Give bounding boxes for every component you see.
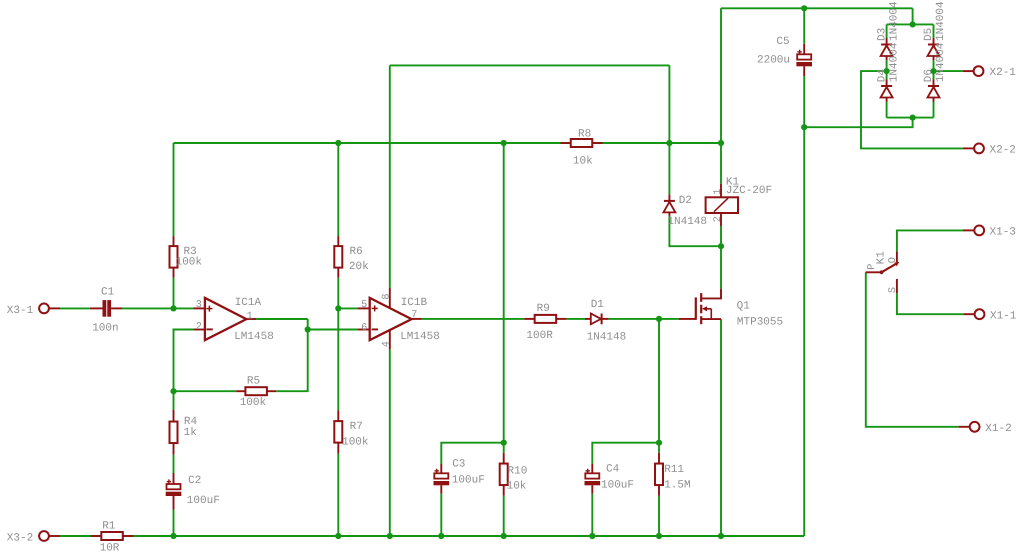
svg-text:1N4148: 1N4148 — [667, 216, 707, 228]
svg-text:100uF: 100uF — [187, 495, 220, 507]
wire R5 left — [174, 390, 237, 392]
svg-text:D3: D3 — [876, 28, 888, 41]
wire D5 top lead — [933, 24, 935, 38]
junction rail R11 — [656, 533, 662, 539]
wire C1 to IC1A pin3 — [122, 307, 193, 309]
resistor R7 — [337, 410, 339, 421]
switch K1 blade — [882, 263, 898, 273]
diode D3 — [886, 38, 888, 45]
wire R8 branch down column — [503, 143, 505, 443]
wire R4 top — [173, 391, 175, 410]
wire C4 bottom to rail — [591, 494, 593, 536]
wire R6 column top — [337, 143, 339, 236]
junction X3-1 R3 — [170, 305, 176, 311]
svg-text:10k: 10k — [573, 155, 593, 167]
svg-text:100n: 100n — [92, 323, 118, 335]
junction X2-1 right column — [930, 68, 936, 74]
wire R6R7 column middle — [337, 308, 339, 410]
svg-text:IC1A: IC1A — [235, 297, 262, 309]
junction supply rail R6 — [335, 140, 341, 146]
wire C3 bottom to rail — [440, 494, 442, 536]
junction supply rail R8 branch — [501, 140, 507, 146]
wire switch pole to X1-2 — [866, 272, 959, 427]
svg-text:D5: D5 — [923, 28, 935, 41]
wire D2 bottom to relay junction — [669, 216, 721, 246]
wire R4 to C2 — [173, 455, 175, 473]
transistor Q1 MTP3055 — [679, 318, 696, 320]
svg-text:2200u: 2200u — [757, 55, 790, 67]
svg-text:K1: K1 — [875, 251, 887, 265]
wire X3-2 to R1 — [60, 535, 91, 537]
wire D1 to Q1 gate — [608, 318, 678, 320]
junction gate D1 — [656, 316, 662, 322]
capacitor C1 — [90, 307, 103, 309]
wire supply rail left y143 — [174, 142, 722, 144]
wire bridge left to X2-2 route — [861, 71, 963, 148]
junction rail Q1 source — [718, 533, 724, 539]
wire IC1B pin4 to rail — [389, 350, 391, 536]
svg-text:6: 6 — [361, 323, 367, 334]
wire R10 bottom to rail — [503, 496, 505, 536]
capacitor C5 — [803, 44, 805, 55]
svg-text:1N4148: 1N4148 — [587, 331, 627, 343]
resistor R3 — [173, 236, 175, 246]
diode D2 — [668, 194, 670, 201]
svg-text:C1: C1 — [101, 286, 115, 298]
wire IC1A out junction to IC1B pin6 — [308, 329, 358, 331]
svg-text:C5: C5 — [776, 36, 789, 48]
svg-text:8: 8 — [381, 293, 392, 299]
wire C5 top — [803, 8, 805, 44]
svg-text:1N4004: 1N4004 — [935, 42, 947, 82]
svg-text:100R: 100R — [526, 330, 553, 342]
wire C5 junction to bridge bottom — [804, 118, 912, 128]
op-amp IC1B — [358, 307, 370, 309]
svg-text:1.5M: 1.5M — [664, 480, 690, 492]
junction R5 left — [170, 388, 176, 394]
svg-text:X1-1: X1-1 — [990, 310, 1017, 322]
svg-text:X1-3: X1-3 — [990, 227, 1016, 239]
svg-text:R5: R5 — [247, 376, 260, 388]
terminal X1-3 — [963, 229, 974, 231]
junction D2 relay bottom — [718, 243, 724, 249]
svg-text:R8: R8 — [578, 128, 591, 140]
wire X3-1 to C1 — [60, 307, 90, 309]
svg-text:7: 7 — [411, 310, 417, 321]
svg-text:100k: 100k — [240, 397, 267, 409]
svg-text:100k: 100k — [176, 257, 203, 269]
svg-text:100k: 100k — [342, 437, 369, 449]
diode D4 — [886, 80, 888, 87]
junction R6 pin5 — [335, 305, 341, 311]
wire D6 bottom — [933, 102, 935, 118]
junction bridge top tap — [910, 21, 916, 27]
capacitor C2 — [173, 473, 175, 484]
svg-text:10R: 10R — [100, 543, 120, 554]
svg-text:3: 3 — [196, 300, 202, 311]
wire R11 top — [658, 443, 660, 453]
svg-text:100uF: 100uF — [601, 480, 634, 492]
switch K1 pole lead — [866, 271, 882, 273]
wire C5 column bottom to rail — [803, 76, 805, 536]
svg-text:C4: C4 — [606, 464, 620, 476]
wire X1-3 to switch O — [897, 230, 963, 251]
svg-text:D2: D2 — [679, 195, 692, 207]
resistor R11 — [658, 453, 660, 464]
junction rail R10 — [501, 533, 507, 539]
svg-text:X2-1: X2-1 — [990, 67, 1017, 79]
svg-text:LM1458: LM1458 — [400, 331, 440, 343]
svg-text:C2: C2 — [188, 475, 201, 487]
svg-text:O: O — [888, 257, 899, 263]
svg-text:2: 2 — [713, 216, 724, 222]
svg-text:X3-1: X3-1 — [7, 305, 34, 317]
wire bridge tap vertical — [912, 8, 914, 24]
wire IC1A output — [256, 318, 308, 320]
junction supply rail D2 — [666, 140, 672, 146]
wire R8 left segment — [504, 142, 561, 144]
resistor R6 — [337, 236, 339, 246]
op-amp IC1B pin 8 lead — [389, 288, 391, 309]
svg-text:Q1: Q1 — [737, 301, 751, 313]
wire R9 to D1 — [566, 318, 585, 320]
wire D4 bottom — [886, 102, 888, 118]
svg-text:1N4004: 1N4004 — [935, 1, 947, 41]
wire IC1A pin2 feedback vertical — [174, 330, 194, 392]
op-amp IC1A plus symbol — [206, 308, 212, 310]
svg-text:D4: D4 — [876, 69, 888, 83]
wire top rail V+ relay to bridge — [721, 7, 913, 9]
wire D3 bottom to X2-1 row — [886, 60, 888, 71]
relay K1 coil — [720, 184, 722, 198]
svg-text:10k: 10k — [507, 481, 527, 493]
wire R5 right to IC1A output corner — [276, 319, 308, 391]
wire D5 bottom to X2-1 row — [933, 60, 935, 71]
wire R6 bottom to pin5 junction — [337, 278, 339, 309]
svg-text:X2-2: X2-2 — [990, 145, 1016, 157]
resistor R1 — [91, 535, 102, 537]
op-amp IC1A — [193, 307, 205, 309]
svg-text:1k: 1k — [184, 427, 198, 439]
wire C4 connector — [592, 443, 659, 464]
svg-text:1: 1 — [247, 311, 253, 322]
wire IC1B output to R9 — [422, 318, 525, 320]
wire switch S to X1-1 — [897, 293, 964, 314]
terminal X3-2 — [49, 535, 60, 537]
svg-text:D1: D1 — [591, 299, 605, 311]
switch K1 contact O — [896, 251, 898, 262]
junction C4 R11 connector — [656, 440, 662, 446]
svg-text:D6: D6 — [923, 69, 935, 82]
wire D3 top lead — [886, 24, 888, 38]
wire X2-1 row — [934, 70, 963, 72]
junction rail R7 — [335, 533, 341, 539]
terminal X1-1 — [964, 313, 975, 315]
wire relay coil column top — [720, 8, 722, 184]
svg-text:S: S — [888, 287, 899, 293]
wire D2 column upper — [668, 65, 670, 194]
resistor R10 — [503, 453, 505, 464]
svg-text:LM1458: LM1458 — [234, 331, 274, 343]
junction supply rail relay — [718, 140, 724, 146]
wire pin5 junction to IC1B — [338, 307, 357, 309]
wire R3 column top — [173, 143, 175, 236]
wire IC1B pin8 column — [389, 65, 391, 288]
junction rail C2 — [170, 533, 176, 539]
junction rail C4 — [589, 533, 595, 539]
terminal X1-2 — [959, 426, 970, 428]
wire bridge bottom bar — [887, 117, 934, 119]
svg-text:1N4004: 1N4004 — [888, 42, 900, 82]
svg-text:1: 1 — [713, 189, 724, 195]
op-amp IC1B minus symbol — [372, 328, 378, 330]
wire R8 right segment — [603, 142, 722, 144]
junction X2-1 left column — [884, 68, 890, 74]
svg-text:R7: R7 — [350, 421, 363, 433]
junction C5 bottom — [801, 124, 807, 130]
svg-text:R6: R6 — [350, 246, 363, 258]
wire D2 supply branch horizontal y66 — [390, 64, 670, 66]
resistor R5 — [236, 390, 245, 392]
terminal X2-1 — [963, 70, 974, 72]
svg-text:R11: R11 — [664, 464, 684, 476]
terminal X3-1 — [49, 307, 60, 309]
svg-text:C3: C3 — [452, 459, 465, 471]
resistor R9 — [524, 318, 534, 320]
wire C2 bottom to rail — [173, 510, 175, 537]
wire D6 top — [933, 71, 935, 79]
wire D4 top — [886, 71, 888, 79]
op-amp IC1A minus symbol — [206, 328, 212, 330]
junction bridge bottom tap — [910, 115, 916, 121]
wire bridge top bar — [887, 23, 934, 25]
svg-text:1N4004: 1N4004 — [888, 1, 900, 41]
wire C3 connector — [441, 443, 503, 464]
resistor R8 — [561, 142, 571, 144]
switch K1 contact S — [896, 279, 898, 293]
wire bottom rail — [60, 535, 804, 537]
junction C3 R10 connector — [501, 440, 507, 446]
wire relay pin2 to Q1 drain — [720, 226, 722, 289]
svg-text:IC1B: IC1B — [401, 297, 428, 309]
junction rail IC1B pin4 — [387, 533, 393, 539]
svg-text:JZC-20F: JZC-20F — [726, 185, 772, 197]
diode D1 — [585, 318, 591, 320]
terminal X2-2 — [963, 147, 974, 149]
wire R7 bottom to rail — [337, 454, 339, 537]
junction top rail C5 — [801, 5, 807, 11]
capacitor C4 — [591, 464, 593, 474]
svg-text:R1: R1 — [102, 521, 116, 533]
op-amp IC1B plus symbol — [372, 307, 378, 309]
wire R10 top — [503, 443, 505, 453]
svg-text:X1-2: X1-2 — [985, 423, 1011, 435]
svg-text:MTP3055: MTP3055 — [737, 316, 783, 328]
diode D6 — [933, 80, 935, 87]
svg-text:100uF: 100uF — [452, 474, 485, 486]
capacitor C3 — [440, 464, 442, 474]
resistor R4 — [173, 410, 175, 422]
wire gate junction down column — [658, 319, 660, 443]
svg-text:R9: R9 — [537, 303, 550, 315]
wire R3 bottom to junction — [173, 278, 175, 309]
svg-text:2: 2 — [196, 322, 202, 333]
diode D5 — [933, 38, 935, 45]
junction IC1A out feedback — [305, 326, 311, 332]
svg-text:20k: 20k — [349, 261, 369, 273]
svg-text:R10: R10 — [508, 465, 528, 477]
svg-text:4: 4 — [381, 341, 392, 347]
op-amp IC1B pin 4 lead — [389, 330, 391, 350]
junction rail C3 — [438, 533, 444, 539]
wire Q1 source to rail — [720, 319, 722, 536]
wire R11 bottom to rail — [658, 496, 660, 536]
svg-text:X3-2: X3-2 — [7, 532, 33, 544]
svg-text:5: 5 — [361, 300, 367, 311]
